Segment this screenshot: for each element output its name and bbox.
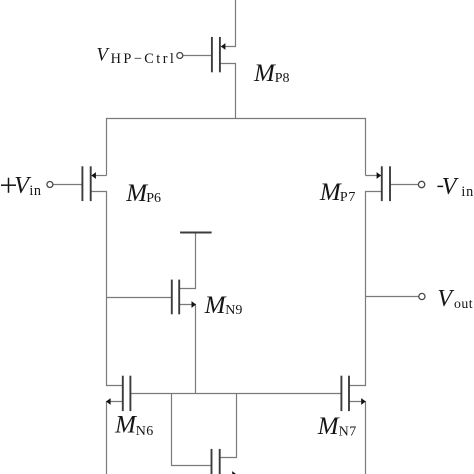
terminal circle -Vin (418, 181, 424, 187)
transistor bottom mirror channel bar (219, 449, 221, 474)
svg-text:M: M (319, 179, 342, 206)
transistor U MN6 gate bar (129, 376, 131, 411)
wire MP7 bottom lead down right rail to MN7 drain lead (349, 192, 382, 386)
arrow MP7 source (points right into channel) (377, 172, 382, 179)
wire MN7 source lead down to bottom edge (349, 402, 366, 474)
label M_N6 (114, 411, 154, 438)
arrow MN9 source (points right outward) (192, 301, 197, 308)
wire tail rail (107, 119, 366, 176)
arrow MN6 source (points left outward) (106, 398, 111, 405)
wire MP7 top lead (366, 175, 382, 177)
terminal circle Vout (419, 293, 425, 299)
wire MN6 source lead down to bottom edge (107, 402, 123, 474)
arrow MP6 source (points left into channel) (91, 172, 96, 179)
svg-text:P7: P7 (340, 190, 356, 205)
svg-text:N9: N9 (225, 303, 242, 318)
svg-text:M: M (114, 411, 137, 438)
label +Vin (plus drawn as lines) (1, 173, 41, 199)
transistor U MN7 gate bar (340, 376, 342, 411)
transistor U MN9 channel bar (178, 280, 180, 315)
svg-text:in: in (461, 184, 474, 200)
terminal circle +Vin (47, 182, 53, 188)
svg-text:N6: N6 (136, 424, 154, 439)
svg-text:V: V (96, 44, 110, 65)
label -Vin (dash drawn as line) (437, 174, 474, 200)
wire MN9 gate to left rail (107, 297, 172, 299)
label M_P8 (253, 60, 289, 87)
svg-text:M: M (317, 413, 340, 440)
wire gate rail down-leg to bottom transistor gate (172, 394, 212, 466)
transistor U MP7 gate bar (389, 166, 391, 201)
wire bottom transistor drain lead up to gate rail (diode connection) (220, 394, 237, 458)
transistor U MN9 gate bar (171, 280, 173, 315)
svg-text:M: M (253, 60, 276, 87)
wire MP8 gate to terminal (183, 55, 212, 57)
arrow MP8 source (points left into channel) (221, 43, 226, 50)
svg-text:out: out (454, 296, 473, 311)
svg-text:M: M (204, 292, 227, 319)
svg-text:N7: N7 (339, 425, 357, 440)
svg-text:P8: P8 (275, 71, 290, 86)
svg-text:in: in (29, 183, 41, 199)
wire MP6 bottom lead down left rail to MN6 drain lead (91, 192, 123, 386)
transistor bottom mirror gate bar (211, 449, 213, 474)
svg-text:V: V (442, 174, 459, 200)
wire top supply to MP8 drain lead (220, 0, 236, 47)
transistor U MP6 channel bar (90, 166, 92, 201)
label V_HP-Ctrl (96, 44, 176, 67)
supply T terminal above MN9 (180, 232, 212, 234)
wire MP7 gate to terminal (390, 184, 418, 186)
label Vout (437, 286, 473, 312)
wire MP8 source lead down to tail rail (220, 64, 236, 119)
svg-text:HP−Ctrl: HP−Ctrl (111, 51, 177, 67)
arrow bottom mirror source (points right, clipped at image edge) (232, 471, 237, 474)
arrow MN7 source (points right outward) (361, 398, 366, 405)
transistor U MN7 channel bar (348, 376, 350, 411)
wire MN9 drain lead up to T terminal (179, 233, 195, 289)
wire MP6 top lead (91, 175, 107, 177)
svg-text:M: M (125, 180, 148, 207)
wire MN9 source lead down to gate rail (179, 305, 195, 394)
wire gate rail MN6 to MN7 (130, 393, 341, 395)
label M_N9 (204, 292, 243, 319)
svg-text:V: V (437, 286, 454, 312)
transistor U MP7 channel bar (381, 166, 383, 201)
transistor U MN6 channel bar (122, 376, 124, 411)
transistor U MP8 gate bar (211, 37, 213, 72)
label M_P7 (319, 179, 356, 206)
wire Vout tap (366, 296, 419, 298)
label M_N7 (317, 413, 357, 440)
transistor U MP8 channel bar (219, 37, 221, 72)
wire MP6 gate to terminal (53, 184, 83, 186)
transistor U MP6 gate bar (81, 166, 83, 201)
label M_P6 (125, 180, 161, 207)
terminal circle V_HP-Ctrl (177, 53, 183, 59)
svg-text:P6: P6 (146, 191, 161, 206)
